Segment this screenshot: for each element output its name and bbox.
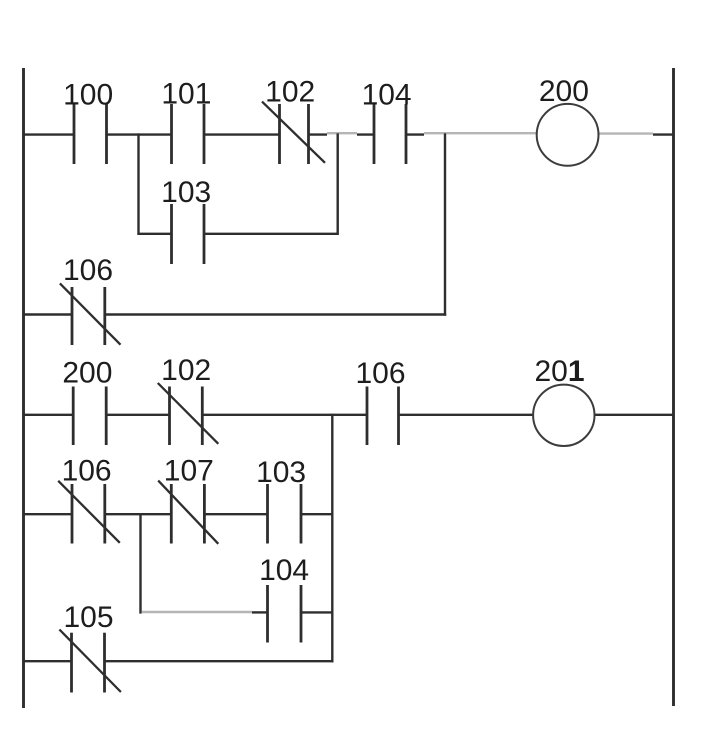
svg-text:103: 103 <box>256 456 306 489</box>
svg-text:104: 104 <box>362 78 412 111</box>
svg-text:102: 102 <box>161 354 211 387</box>
svg-text:100: 100 <box>63 78 113 111</box>
svg-text:200: 200 <box>539 75 589 108</box>
svg-text:104: 104 <box>259 554 309 587</box>
svg-text:107: 107 <box>164 454 214 487</box>
svg-text:200: 200 <box>62 356 112 389</box>
svg-text:106: 106 <box>63 254 113 287</box>
svg-text:106: 106 <box>355 357 405 390</box>
svg-text:103: 103 <box>161 176 211 209</box>
svg-text:106: 106 <box>62 455 112 488</box>
svg-text:101: 101 <box>161 78 211 111</box>
svg-text:201: 201 <box>534 355 584 388</box>
svg-text:105: 105 <box>63 601 113 634</box>
svg-text:102: 102 <box>265 75 315 108</box>
